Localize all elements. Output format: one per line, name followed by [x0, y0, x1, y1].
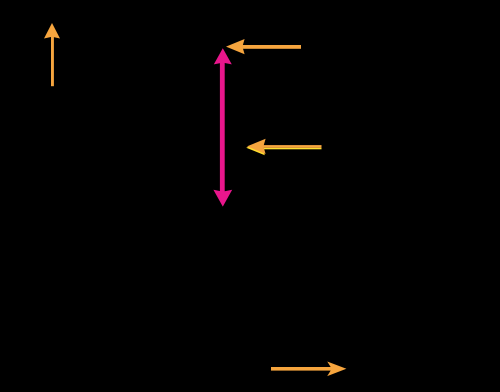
vector F2: orange left arrow (top, meeting magenta tip): [226, 39, 301, 54]
vector F4: orange right arrow (bottom): [271, 362, 346, 377]
vector F1: orange up arrow (left side): [44, 23, 60, 86]
vector D: magenta double-headed vertical arrow (center): [213, 48, 232, 206]
vector F3: orange left arrow (middle right, in front of yellow): [247, 139, 322, 154]
vector F3y: yellow left arrow (peeking from behind orange, middle right): [246, 140, 321, 155]
